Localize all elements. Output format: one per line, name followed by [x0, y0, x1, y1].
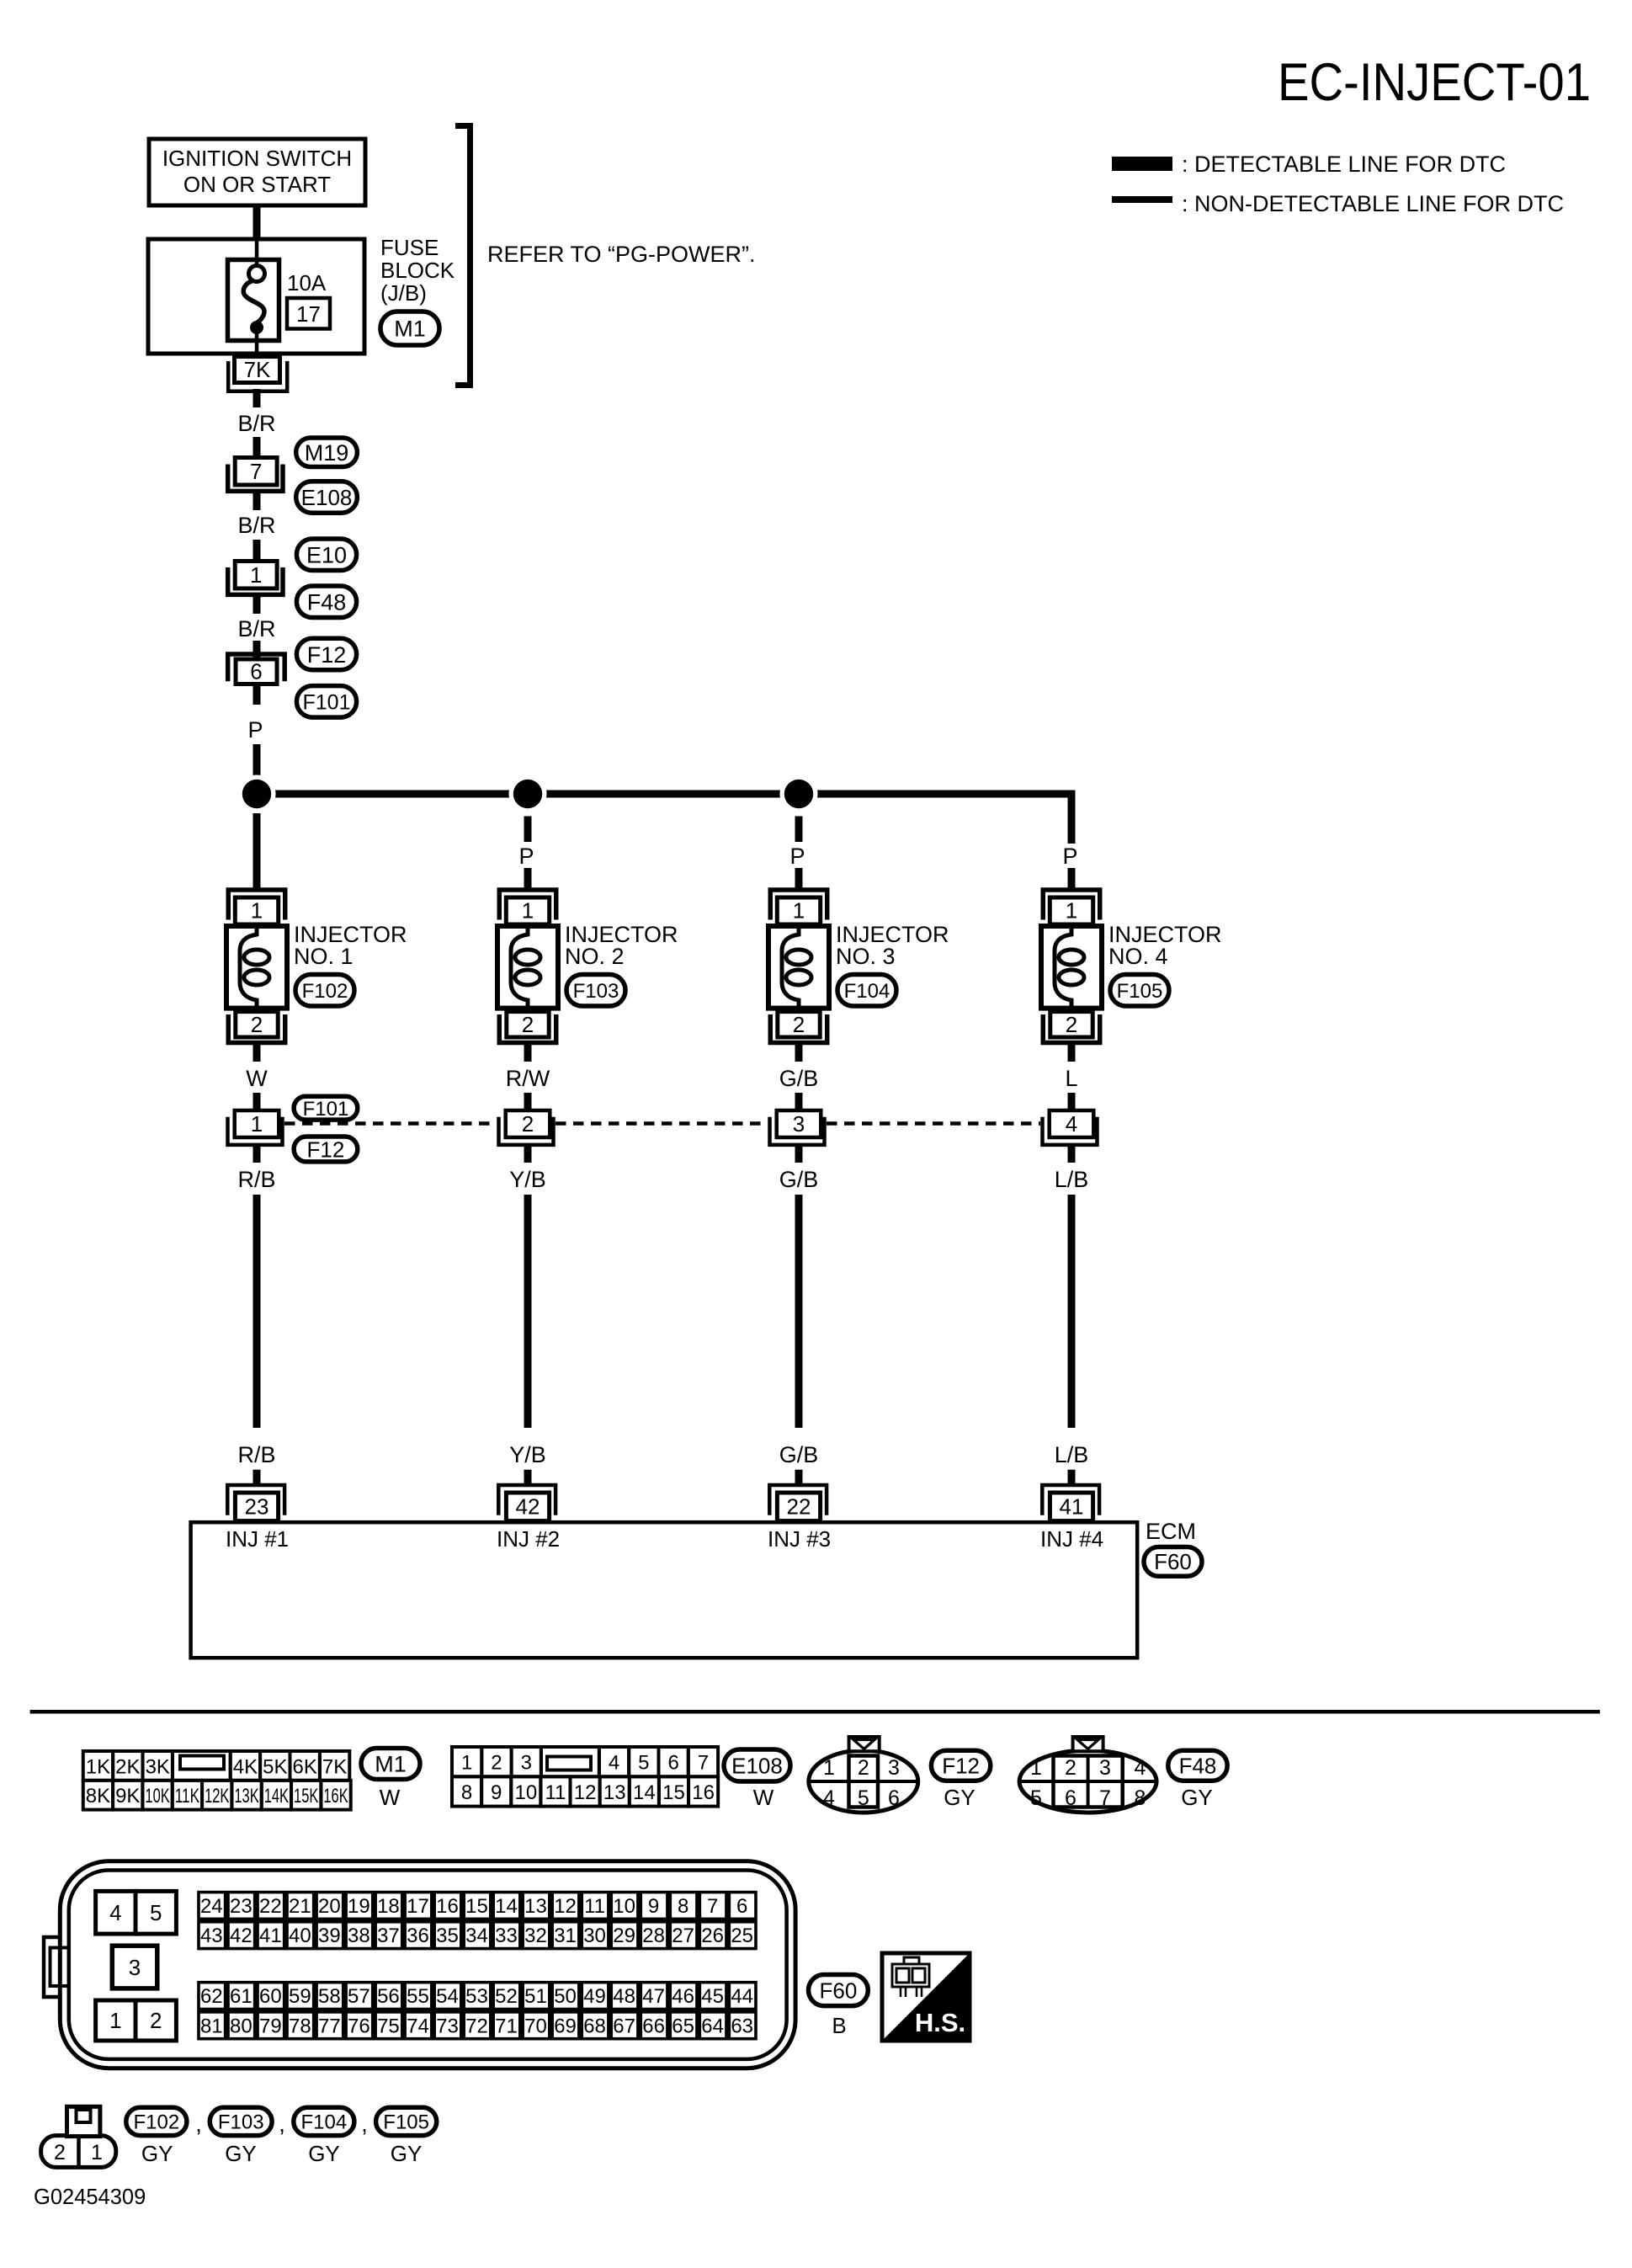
svg-text:40: 40 — [289, 1925, 311, 1947]
svg-text:23: 23 — [230, 1895, 253, 1918]
wire bus to injector 4 upper — [1068, 798, 1076, 843]
svg-text:14: 14 — [633, 1781, 656, 1804]
svg-text:2: 2 — [522, 1012, 534, 1037]
svg-text:Y/B: Y/B — [509, 1442, 546, 1467]
injector no.4 coil — [1055, 928, 1071, 1007]
svg-text:46: 46 — [672, 1985, 694, 2008]
wire color label G/B column 3 upper — [795, 1147, 803, 1163]
svg-text:F104: F104 — [844, 980, 890, 1003]
svg-text:1: 1 — [91, 2141, 103, 2164]
svg-text:15: 15 — [465, 1895, 488, 1918]
wire fuse to connector 7K — [255, 333, 259, 355]
splice connector bracket 1 — [228, 1117, 283, 1145]
svg-text:3: 3 — [888, 1756, 900, 1780]
connector oval E10 — [296, 539, 356, 571]
wire bus to injector 2 upper — [524, 817, 532, 843]
injector no.2 bottom bracket — [499, 1014, 556, 1043]
svg-text:NO. 4: NO. 4 — [1108, 944, 1168, 969]
svg-text:6: 6 — [736, 1895, 747, 1918]
svg-text:55: 55 — [407, 1985, 429, 2008]
bracket refer to PG-POWER — [455, 126, 470, 386]
connector oval F101 at splice — [294, 1096, 358, 1120]
svg-text:5: 5 — [638, 1752, 649, 1775]
svg-text:4: 4 — [609, 1752, 619, 1775]
svg-text:13: 13 — [603, 1781, 626, 1804]
svg-text:F12: F12 — [942, 1754, 980, 1779]
svg-text:15: 15 — [662, 1781, 685, 1804]
connector 7K bracket — [228, 361, 287, 391]
injector no.3 pin 1 box — [777, 897, 820, 924]
wire color label L/B column 4 upper — [1068, 1147, 1076, 1163]
svg-text:2: 2 — [522, 1111, 534, 1137]
connector 1 bracket — [228, 567, 283, 594]
svg-text:31: 31 — [554, 1925, 577, 1947]
svg-text:39: 39 — [318, 1925, 341, 1947]
svg-text:48: 48 — [613, 1985, 635, 2008]
svg-text:FUSE: FUSE — [380, 235, 439, 260]
svg-text:6: 6 — [888, 1786, 900, 1810]
connector oval F12 bottom — [931, 1750, 990, 1781]
svg-text:Y/B: Y/B — [509, 1167, 546, 1192]
svg-text:2: 2 — [1066, 1012, 1077, 1037]
svg-text:B/R: B/R — [237, 513, 275, 538]
H.S. icon connector drawing — [892, 1964, 929, 1987]
svg-text:F103: F103 — [218, 2111, 264, 2134]
injector no.3 coil body — [768, 926, 829, 1009]
svg-text:IGNITION SWITCH: IGNITION SWITCH — [162, 146, 352, 171]
svg-text:E108: E108 — [301, 485, 353, 510]
wire bus to injector 2 lower — [524, 868, 532, 888]
svg-text:36: 36 — [407, 1925, 429, 1947]
injector no.3 top bracket — [770, 890, 827, 920]
connector oval F103 — [566, 975, 625, 1007]
svg-text:R/W: R/W — [506, 1066, 550, 1091]
ECM pin 23 box — [235, 1493, 278, 1521]
wire bus to injector 4 lower — [1068, 868, 1076, 888]
svg-text:77: 77 — [318, 2015, 341, 2037]
svg-text:27: 27 — [672, 1925, 694, 1947]
wire bus to injector 3 lower — [795, 868, 803, 888]
ECM pin 42 box — [506, 1493, 549, 1521]
svg-text:11: 11 — [545, 1781, 566, 1804]
ECM connector F60 outline — [60, 1861, 795, 2068]
svg-text:4: 4 — [1135, 1756, 1146, 1780]
svg-text:47: 47 — [642, 1985, 665, 2008]
svg-text:EC-INJECT-01: EC-INJECT-01 — [1278, 53, 1591, 112]
svg-text:: DETECTABLE LINE FOR DTC: : DETECTABLE LINE FOR DTC — [1182, 152, 1506, 177]
injector no.3 coil — [782, 928, 799, 1007]
svg-text:F105: F105 — [383, 2111, 429, 2134]
svg-text:69: 69 — [554, 2015, 577, 2037]
svg-text:81: 81 — [200, 2015, 223, 2037]
svg-text:GY: GY — [141, 2141, 173, 2166]
svg-text:8: 8 — [678, 1895, 688, 1918]
svg-text:66: 66 — [642, 2015, 665, 2037]
svg-text:NO. 3: NO. 3 — [836, 944, 896, 969]
svg-text:P: P — [1062, 844, 1077, 869]
fuse element — [249, 266, 265, 282]
svg-text:6K: 6K — [293, 1755, 317, 1778]
ECM box — [191, 1522, 1138, 1658]
ECM connector cell 2 — [136, 2000, 176, 2041]
connector oval M1 bottom — [361, 1749, 420, 1780]
svg-text:7: 7 — [707, 1895, 718, 1918]
svg-text:4: 4 — [823, 1786, 835, 1810]
connector 7 bracket — [228, 465, 283, 492]
svg-text:F101: F101 — [303, 1098, 349, 1121]
wire bus corner to injector 4 — [1068, 791, 1076, 844]
wire color label R/B column 1 upper — [253, 1147, 261, 1163]
junction node 3 — [780, 775, 818, 813]
svg-text:29: 29 — [613, 1925, 635, 1947]
svg-text:2: 2 — [491, 1752, 502, 1775]
svg-text:35: 35 — [436, 1925, 459, 1947]
svg-text:1K: 1K — [86, 1755, 110, 1778]
connector oval E108 bottom — [724, 1749, 790, 1781]
wire B/R segment 6 — [253, 641, 261, 658]
injector no.1 pin 1 box — [235, 897, 278, 924]
svg-text:10: 10 — [613, 1895, 635, 1918]
svg-text:,: , — [195, 2111, 202, 2137]
ECM connector upper pin grid — [199, 1893, 226, 1919]
connector oval F102 bottom — [126, 2107, 187, 2135]
svg-text:B/R: B/R — [237, 411, 275, 436]
svg-text:F48: F48 — [1179, 1754, 1217, 1779]
injector no.4 top bracket — [1043, 890, 1100, 920]
svg-text:67: 67 — [613, 2015, 635, 2037]
junction node 2 — [509, 775, 547, 813]
splice connector bracket 4 — [1043, 1117, 1098, 1145]
connector oval F105 — [1110, 975, 1169, 1007]
svg-text:REFER TO “PG-POWER”.: REFER TO “PG-POWER”. — [487, 242, 756, 267]
svg-text:25: 25 — [731, 1925, 753, 1947]
svg-text:1: 1 — [461, 1752, 472, 1775]
svg-text:E10: E10 — [306, 542, 347, 567]
connector oval M19 — [296, 438, 358, 467]
wire ignition switch to fuse block — [253, 205, 261, 241]
svg-text:50: 50 — [554, 1985, 577, 2008]
svg-text:ON OR START: ON OR START — [183, 172, 331, 197]
svg-text:5: 5 — [858, 1786, 869, 1810]
svg-text:12K: 12K — [205, 1785, 229, 1807]
svg-text:62: 62 — [200, 1985, 223, 2008]
svg-text:INJ #4: INJ #4 — [1040, 1526, 1103, 1552]
svg-text:12: 12 — [574, 1781, 597, 1804]
injector no.1 coil — [240, 928, 257, 1007]
svg-text:76: 76 — [348, 2015, 370, 2037]
connector oval M1 — [380, 311, 439, 345]
injector no.2 top bracket — [499, 890, 556, 920]
connector oval F12 at splice — [294, 1137, 358, 1162]
svg-text:6: 6 — [250, 659, 262, 684]
wire injector 1 to splice connector — [253, 1045, 261, 1062]
svg-text:F48: F48 — [307, 589, 347, 615]
svg-text:22: 22 — [259, 1895, 282, 1918]
ECM pin 22 box — [777, 1493, 820, 1521]
svg-text:F102: F102 — [302, 980, 348, 1003]
wire B/R segment 2 — [253, 437, 261, 455]
connector M1 pin grid — [83, 1751, 113, 1781]
svg-text:13: 13 — [524, 1895, 547, 1918]
svg-text:14: 14 — [495, 1895, 518, 1918]
connector oval F60 — [1144, 1547, 1202, 1577]
svg-text:19: 19 — [348, 1895, 370, 1918]
svg-text:GY: GY — [391, 2141, 423, 2166]
svg-text:21: 21 — [289, 1895, 311, 1918]
svg-text:P: P — [789, 844, 805, 869]
svg-text:ECM: ECM — [1146, 1519, 1196, 1544]
svg-text:1: 1 — [823, 1756, 835, 1780]
svg-text:F105: F105 — [1117, 980, 1163, 1003]
svg-text:10: 10 — [514, 1781, 537, 1804]
injector no.4 pin 2 box — [1050, 1012, 1092, 1037]
svg-text:71: 71 — [495, 2015, 518, 2037]
wire P segment — [253, 686, 261, 705]
svg-text:L/B: L/B — [1055, 1167, 1089, 1192]
svg-text:10K: 10K — [145, 1785, 169, 1807]
connector oval F101 — [296, 686, 356, 718]
svg-text:F103: F103 — [573, 980, 619, 1003]
injector no.1 bottom bracket — [228, 1014, 285, 1043]
svg-text:,: , — [361, 2111, 368, 2137]
dashed link splice 3 to 4 — [827, 1121, 1040, 1126]
svg-text:M19: M19 — [305, 440, 349, 466]
svg-text:1: 1 — [251, 898, 263, 924]
svg-text:G/B: G/B — [779, 1167, 819, 1192]
wire B/R segment 1 — [253, 389, 261, 407]
connector oval F60 bottom — [809, 1975, 869, 2006]
svg-text:P: P — [518, 844, 534, 869]
power bus wire — [253, 791, 1076, 798]
svg-text:49: 49 — [583, 1985, 606, 2008]
wire injector 3 to splice connector — [795, 1045, 803, 1062]
connector F48 key — [1073, 1737, 1103, 1751]
svg-text:57: 57 — [348, 1985, 370, 2008]
wire long L/B to ECM column 4 — [1068, 1195, 1076, 1428]
svg-text:64: 64 — [701, 2015, 724, 2037]
svg-text:,: , — [279, 2111, 285, 2137]
svg-text:79: 79 — [259, 2015, 282, 2037]
svg-text:R/B: R/B — [237, 1442, 275, 1467]
svg-text:F60: F60 — [819, 1978, 857, 2003]
svg-text:22: 22 — [787, 1494, 811, 1520]
ECM pin 41 bracket — [1042, 1485, 1099, 1515]
svg-text:63: 63 — [731, 2015, 753, 2037]
wire B/R segment 4 — [253, 540, 261, 559]
svg-text:6: 6 — [1065, 1786, 1076, 1810]
svg-text:20: 20 — [318, 1895, 341, 1918]
injector no.3 pin 2 box — [778, 1012, 820, 1037]
separator line — [30, 1710, 1600, 1714]
svg-text:INJ #1: INJ #1 — [226, 1526, 289, 1552]
ECM connector cell 5 — [136, 1891, 176, 1934]
injector no.2 pin 2 box — [507, 1012, 549, 1037]
connector 6 bracket — [228, 654, 285, 681]
injector no.1 pin 2 box — [236, 1012, 278, 1037]
connector 1 box — [235, 562, 277, 589]
svg-text:M1: M1 — [394, 317, 426, 342]
fuse block M1 box — [148, 239, 364, 354]
svg-text:L/B: L/B — [1055, 1442, 1089, 1467]
svg-text:8: 8 — [461, 1781, 472, 1804]
connector oval F105 bottom — [376, 2107, 437, 2135]
svg-text:R/B: R/B — [237, 1167, 275, 1192]
H.S. view icon — [882, 1953, 970, 2041]
splice connector box 3 — [777, 1110, 821, 1137]
svg-text:INJ #2: INJ #2 — [497, 1526, 560, 1552]
svg-text:F104: F104 — [300, 2111, 347, 2134]
svg-text:42: 42 — [516, 1494, 540, 1520]
svg-text:6: 6 — [667, 1752, 678, 1775]
wire junction1 to injector 1 — [253, 813, 261, 888]
svg-text:INJ #3: INJ #3 — [768, 1526, 831, 1552]
svg-text:5K: 5K — [263, 1755, 287, 1778]
svg-text:14K: 14K — [264, 1785, 289, 1807]
svg-text:74: 74 — [407, 2015, 429, 2037]
svg-text:2: 2 — [150, 2008, 162, 2033]
svg-text:43: 43 — [200, 1925, 223, 1947]
connector oval F104 — [837, 975, 896, 1007]
svg-text:53: 53 — [465, 1985, 488, 2008]
svg-text:3: 3 — [1099, 1756, 1111, 1780]
injector no.2 coil — [511, 928, 528, 1007]
wire long G/B to ECM column 3 — [795, 1195, 803, 1428]
svg-text:32: 32 — [524, 1925, 547, 1947]
svg-text:9: 9 — [648, 1895, 659, 1918]
svg-text:2K: 2K — [115, 1755, 140, 1778]
connector 7K box — [235, 357, 280, 383]
svg-text:78: 78 — [289, 2015, 311, 2037]
injector no.4 bottom bracket — [1043, 1014, 1100, 1043]
svg-text:1: 1 — [522, 898, 534, 924]
svg-text:F12: F12 — [307, 1137, 345, 1162]
svg-text:W: W — [380, 1785, 401, 1810]
dashed link splice 2 to 3 — [556, 1121, 768, 1126]
svg-text:61: 61 — [230, 1985, 253, 2008]
svg-text:9: 9 — [491, 1781, 502, 1804]
ECM connector cell 3 — [112, 1946, 157, 1988]
svg-text:10A: 10A — [287, 270, 327, 295]
svg-text:51: 51 — [524, 1985, 547, 2008]
svg-text:17: 17 — [296, 301, 321, 327]
connector F12 round connector — [809, 1750, 918, 1813]
svg-text:65: 65 — [672, 2015, 694, 2037]
svg-text:75: 75 — [377, 2015, 400, 2037]
connector oval F103 bottom — [210, 2107, 272, 2135]
injector no.2 coil body — [497, 926, 558, 1009]
svg-text:11: 11 — [584, 1895, 605, 1918]
svg-text:7: 7 — [250, 459, 262, 484]
svg-text:1: 1 — [250, 562, 262, 588]
connector F48 round connector — [1019, 1750, 1156, 1813]
svg-text:B/R: B/R — [237, 616, 275, 642]
ECM pin 41 box — [1050, 1493, 1092, 1521]
svg-text:F101: F101 — [303, 690, 351, 714]
svg-text:11K: 11K — [175, 1785, 199, 1807]
svg-text:GY: GY — [1181, 1785, 1213, 1810]
svg-text:M1: M1 — [375, 1752, 407, 1777]
svg-text:2: 2 — [251, 1012, 263, 1037]
svg-text:16: 16 — [692, 1781, 715, 1804]
splice connector box 2 — [506, 1110, 550, 1137]
wire long R/B to ECM column 1 — [253, 1195, 261, 1428]
injector harness connector shell — [41, 2136, 116, 2168]
svg-text:3: 3 — [793, 1111, 805, 1137]
wire P segment 2 — [253, 744, 261, 780]
svg-text:2: 2 — [54, 2141, 66, 2164]
svg-text:1: 1 — [1030, 1756, 1042, 1780]
svg-text:60: 60 — [259, 1985, 282, 2008]
svg-text:59: 59 — [289, 1985, 311, 2008]
svg-text:7: 7 — [698, 1752, 709, 1775]
svg-text:13K: 13K — [234, 1785, 258, 1807]
splice connector box 4 — [1050, 1110, 1094, 1137]
svg-text:8: 8 — [1135, 1786, 1146, 1810]
svg-text:5: 5 — [150, 1900, 162, 1925]
svg-text:9K: 9K — [115, 1785, 140, 1807]
svg-text:7K: 7K — [244, 357, 271, 382]
svg-text:GY: GY — [225, 2141, 257, 2166]
svg-text:P: P — [247, 717, 263, 743]
svg-text:30: 30 — [583, 1925, 606, 1947]
svg-text:7: 7 — [1099, 1786, 1111, 1810]
svg-text:2: 2 — [1065, 1756, 1076, 1780]
splice connector bracket 3 — [770, 1117, 825, 1145]
svg-text:34: 34 — [465, 1925, 488, 1947]
wire injector 2 to splice connector — [524, 1045, 532, 1062]
wire injector 4 to splice connector — [1068, 1045, 1076, 1062]
svg-text:BLOCK: BLOCK — [380, 258, 455, 283]
dashed link splice 1 to 2 — [284, 1121, 497, 1126]
splice connector box 1 — [235, 1110, 279, 1137]
connector 7 box — [235, 458, 277, 486]
ECM connector left lug — [44, 1937, 61, 1997]
svg-text:F102: F102 — [133, 2111, 179, 2134]
fuse 10A symbol box — [228, 260, 279, 341]
injector harness connector key — [67, 2106, 100, 2136]
svg-text:7K: 7K — [322, 1755, 347, 1778]
svg-text:18: 18 — [377, 1895, 400, 1918]
svg-text:B: B — [832, 2013, 846, 2038]
svg-text:4: 4 — [109, 1900, 121, 1925]
svg-text:17: 17 — [407, 1895, 429, 1918]
svg-text:16K: 16K — [323, 1785, 348, 1807]
svg-text:NO. 1: NO. 1 — [294, 944, 354, 969]
svg-text:NO. 2: NO. 2 — [565, 944, 625, 969]
svg-text:58: 58 — [318, 1985, 341, 2008]
svg-text:12: 12 — [554, 1895, 577, 1918]
svg-text:37: 37 — [377, 1925, 400, 1947]
svg-text:26: 26 — [701, 1925, 724, 1947]
svg-text:33: 33 — [495, 1925, 518, 1947]
svg-text:24: 24 — [200, 1895, 223, 1918]
svg-text:GY: GY — [944, 1785, 975, 1810]
svg-text:4: 4 — [1066, 1111, 1077, 1137]
wire bus to injector 3 upper — [795, 817, 803, 843]
injector no.1 coil body — [226, 926, 287, 1009]
injector no.3 bottom bracket — [770, 1014, 827, 1043]
connector oval F102 — [295, 975, 354, 1007]
injector no.1 top bracket — [228, 890, 285, 920]
svg-text:F60: F60 — [1154, 1549, 1192, 1574]
junction node 1 — [238, 775, 276, 813]
wire color label Y/B column 2 upper — [524, 1147, 532, 1163]
legend non-detectable line sample — [1112, 196, 1172, 203]
wire B/R segment 3 — [253, 493, 261, 510]
wire long Y/B to ECM column 2 — [524, 1195, 532, 1428]
svg-text:41: 41 — [1060, 1494, 1084, 1520]
ECM connector cell 4 — [96, 1891, 136, 1934]
